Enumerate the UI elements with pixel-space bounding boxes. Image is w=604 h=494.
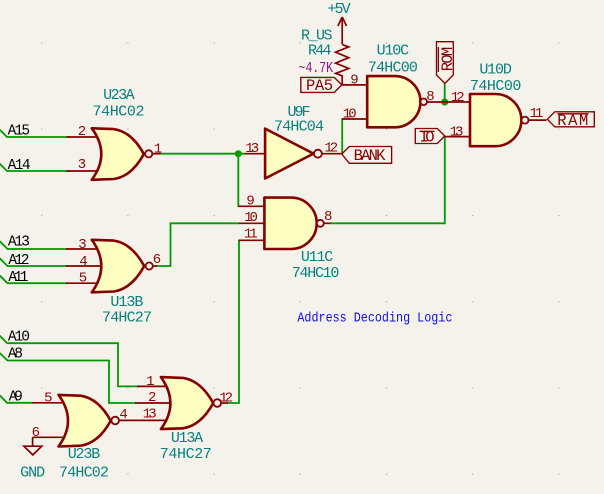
svg-text:74HC00: 74HC00 (368, 60, 418, 77)
svg-text:A14: A14 (8, 158, 31, 174)
svg-text:A12: A12 (8, 253, 29, 269)
svg-text:74HC27: 74HC27 (102, 310, 152, 327)
svg-text:RAM: RAM (557, 112, 588, 130)
svg-text:A11: A11 (8, 270, 28, 286)
svg-text:1: 1 (154, 142, 162, 158)
svg-text:U11C: U11C (301, 249, 333, 266)
svg-text:4: 4 (79, 254, 87, 270)
svg-text:10: 10 (343, 107, 357, 123)
svg-text:R44: R44 (308, 43, 332, 60)
svg-text:74HC27: 74HC27 (160, 446, 212, 463)
svg-text:12: 12 (324, 140, 338, 156)
svg-text:A8: A8 (8, 347, 23, 363)
svg-text:12: 12 (219, 391, 233, 407)
svg-text:ROM: ROM (439, 47, 457, 72)
svg-text:3: 3 (78, 157, 86, 173)
svg-text:U13A: U13A (171, 430, 203, 447)
svg-text:IO: IO (420, 128, 435, 146)
svg-text:13: 13 (143, 407, 157, 423)
svg-text:74HC10: 74HC10 (292, 265, 340, 282)
svg-text:74HC02: 74HC02 (59, 465, 109, 482)
svg-text:74HC04: 74HC04 (274, 119, 324, 136)
svg-text:BANK: BANK (354, 147, 386, 165)
svg-text:A10: A10 (8, 330, 30, 346)
svg-text:74HC00: 74HC00 (470, 78, 521, 95)
svg-text:9: 9 (350, 73, 358, 89)
svg-text:5: 5 (44, 391, 52, 407)
svg-text:U23A: U23A (103, 87, 134, 104)
svg-text:5: 5 (79, 270, 87, 286)
svg-text:+5V: +5V (327, 1, 350, 18)
svg-text:~4.7K: ~4.7K (299, 60, 334, 77)
svg-text:PA5: PA5 (306, 77, 333, 95)
svg-text:A13: A13 (8, 234, 30, 250)
svg-text:U23B: U23B (68, 446, 101, 463)
svg-text:Address Decoding Logic: Address Decoding Logic (297, 312, 452, 327)
svg-text:GND: GND (20, 465, 45, 482)
svg-text:8: 8 (426, 89, 434, 105)
svg-text:74HC02: 74HC02 (93, 104, 145, 121)
svg-text:A15: A15 (8, 124, 31, 140)
svg-text:1: 1 (146, 374, 154, 390)
svg-text:U10C: U10C (377, 43, 410, 60)
svg-text:8: 8 (324, 209, 332, 225)
svg-text:13: 13 (245, 141, 259, 157)
svg-text:4: 4 (119, 407, 127, 423)
svg-text:A9: A9 (9, 389, 23, 405)
svg-text:13: 13 (450, 124, 464, 140)
svg-text:11: 11 (244, 227, 258, 243)
svg-text:11: 11 (530, 106, 544, 122)
svg-text:2: 2 (148, 390, 156, 406)
svg-text:12: 12 (451, 90, 465, 106)
svg-text:9: 9 (246, 194, 254, 210)
svg-text:3: 3 (78, 237, 86, 253)
svg-text:6: 6 (32, 425, 40, 441)
svg-text:2: 2 (78, 124, 86, 140)
svg-text:10: 10 (244, 210, 258, 226)
svg-text:6: 6 (153, 252, 161, 268)
svg-text:U10D: U10D (479, 62, 511, 79)
svg-text:U13B: U13B (110, 294, 143, 311)
